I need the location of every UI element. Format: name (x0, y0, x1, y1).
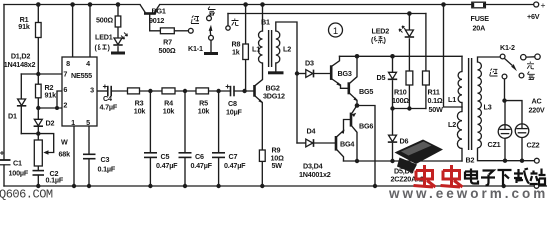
wire: BG6 collector drop (352, 126, 357, 161)
svg-text:1k: 1k (232, 48, 240, 57)
svg-text:+6V: +6V (527, 12, 540, 21)
svg-text:+: + (541, 0, 546, 10)
LED2 (green) (399, 26, 414, 37)
transistor BG6 (PNP) (351, 113, 356, 127)
resistor R3 (128, 88, 140, 94)
wire: K1-2 inverter contact down (504, 79, 506, 101)
node: D1/D2/pot (36, 131, 40, 135)
svg-text:NE555: NE555 (71, 71, 92, 80)
annotation circled 1 (329, 23, 343, 37)
node: y56 rail junctions (355, 54, 360, 59)
wire: C6 leads (184, 91, 186, 153)
svg-text:L2: L2 (448, 120, 456, 129)
node: bottom rail junctions (36, 184, 40, 188)
node: pin2/pin6/R2/D2 (36, 106, 40, 110)
node: return line junctions (355, 159, 359, 163)
wire: NE555 pin 4 supply (89, 5, 91, 58)
svg-text:B2: B2 (466, 156, 475, 165)
wire: R8 leads (245, 5, 247, 45)
svg-text:L1: L1 (252, 45, 260, 54)
LED1 (red) (113, 33, 127, 46)
svg-text:BG4: BG4 (340, 140, 354, 149)
svg-text:AC: AC (532, 97, 542, 106)
wire: R1 top lead (37, 5, 39, 23)
fuse FUSE 20A (472, 2, 486, 8)
wire: left border / C1 branch upper (3, 5, 5, 160)
wire: D2 leads (37, 108, 39, 119)
svg-text:0.1Ω: 0.1Ω (428, 96, 443, 105)
svg-text:3: 3 (90, 86, 94, 95)
wire: pot W top lead (37, 134, 39, 140)
wire: top +6V rail right segment (160, 4, 534, 6)
label (green) for LED2 (374, 36, 383, 43)
wire: return line y161 to B2 (344, 160, 463, 162)
svg-text:10k: 10k (134, 107, 146, 116)
svg-text:100Ω: 100Ω (392, 96, 409, 105)
wire: socket feed line (505, 101, 523, 124)
node: socket feed (502, 98, 506, 102)
wire: BG5 emitter to output node (350, 94, 357, 106)
wire: B1 L1 top lead (262, 5, 264, 32)
switch K1-2 contact NI (inverter) (502, 74, 507, 79)
svg-text:C1: C1 (13, 159, 22, 168)
diode D2 (34, 119, 43, 126)
svg-text:L3: L3 (484, 103, 492, 112)
wire: secondary + rail y13.5 (228, 13, 426, 15)
wire: D1 anode lead (20, 74, 22, 99)
wire: BG2 emitter to R9 (255, 96, 262, 150)
svg-text:68k: 68k (59, 150, 71, 159)
svg-text:5: 5 (86, 118, 90, 127)
wire: B1 L1 bottom to BG2 collector (255, 63, 262, 85)
wire: D4 to BG4 base (314, 142, 335, 144)
terminal +6V (534, 2, 539, 7)
wire: LED2 top lead (408, 14, 410, 31)
wire: BG3 emitter to BG5 base (332, 79, 348, 88)
svg-text:220V: 220V (529, 106, 545, 115)
wire: BG1 base lead (150, 14, 161, 31)
wire: feedback node to D3 (297, 73, 306, 75)
diode D3 (306, 70, 314, 78)
transistor BG2 (3DG12) (255, 85, 263, 103)
label CHONG (charge) at K1-2 (527, 62, 534, 69)
svg-text:1N4148x2: 1N4148x2 (4, 60, 36, 69)
wire: +6V to B2 centre tap (444, 5, 463, 108)
wire: left border / C1 branch lower (3, 165, 5, 186)
wire: R5 to C8 (209, 90, 231, 92)
diode D5 (388, 72, 397, 79)
svg-text:0.47µF: 0.47µF (156, 161, 178, 170)
label TING (stop) at K1-1 (208, 7, 216, 16)
svg-text:0.1µF: 0.1µF (46, 176, 64, 185)
wire: R2 leads (37, 74, 39, 84)
wire: collector rail y56 (340, 55, 463, 57)
resistor R11 (423, 71, 430, 85)
terminal bottom right (534, 184, 539, 189)
ground: B1 L2 (268, 71, 284, 74)
svg-text:BG1: BG1 (152, 7, 166, 16)
transformer B1 winding L2 (276, 31, 280, 63)
wire: node D1/D2 to pot (21, 133, 38, 135)
transistor BG1 (9012) (140, 5, 160, 15)
socket CZ2 (515, 124, 529, 138)
transistor BG5 (349, 82, 358, 101)
resistor R1 (36, 23, 42, 38)
wire: BG4 collector drop (337, 150, 343, 161)
wire: pin 3 to C4 (97, 90, 108, 92)
wire: pin 2 line (38, 107, 62, 109)
svg-text:10k: 10k (198, 107, 210, 116)
watermark text char XIA (down) (498, 170, 512, 186)
svg-text:L2: L2 (283, 45, 291, 54)
wire: 500ohm resistor to LED1 (117, 27, 119, 38)
node: rail junctions top (36, 2, 41, 7)
potentiometer W (34, 140, 48, 166)
svg-text:K1-2: K1-2 (500, 43, 515, 52)
wire: BG4 emitter diagonal (337, 131, 343, 137)
capacitor C6 (179, 153, 192, 158)
watermark red bug character 1 (414, 165, 436, 187)
wire: LED2 to R10 (408, 39, 410, 71)
wire: pin 7 line (21, 73, 62, 75)
svg-text:4: 4 (86, 59, 90, 68)
svg-text:C7: C7 (229, 152, 238, 161)
wire: D5 bottom lead (392, 81, 394, 109)
resistor R4 (162, 88, 175, 94)
socket CZ1 (498, 125, 512, 139)
wire: C4 to R3 (111, 90, 127, 92)
wire: D3 to BG3 base (314, 73, 330, 75)
svg-text:D6: D6 (400, 137, 409, 146)
wire: top +6V rail left segment (4, 4, 140, 6)
transistor BG4 (336, 129, 344, 150)
wire: NE555 pin 8 supply (72, 5, 74, 58)
svg-text:0.1µF: 0.1µF (98, 165, 116, 174)
wire: R11 bottom lead (425, 85, 427, 109)
svg-text:www.eeworm.com: www.eeworm.com (388, 186, 547, 200)
wire: B2 L3 bottom to socket line (478, 149, 535, 161)
switch K1-1 contact NI (reverse) (188, 28, 193, 33)
wire: C2 bottom lead (37, 175, 39, 186)
label TING (stop) at K1-2 (528, 72, 535, 80)
capacitor C8 (electrolytic) (226, 85, 234, 97)
wire: sense line y108.5 (393, 108, 426, 110)
svg-text:4.7µF: 4.7µF (100, 103, 118, 112)
transformer B1 winding L1 (259, 31, 263, 63)
wire: LED1 cathode to ground (117, 47, 119, 52)
label (red) for LED1 (98, 44, 107, 50)
capacitor C7 (212, 153, 225, 158)
wire: B2 winding join at centre tap (461, 103, 463, 112)
wire: pin 6 stub to pin2 line (57, 91, 62, 108)
svg-text:D4: D4 (307, 127, 316, 136)
wire: B2 L3 top to K1-2 (478, 57, 501, 62)
node: LED2 on y13.5 rail (407, 11, 412, 16)
wire: R9 bottom lead (261, 161, 263, 186)
ground: K1-1 common (204, 52, 218, 55)
svg-text:500Ω: 500Ω (96, 16, 113, 25)
svg-text:BG6: BG6 (359, 122, 373, 131)
diode D1 (17, 99, 26, 106)
wire: B2 L2 bottom to return line (461, 149, 463, 162)
resistor R2 (36, 84, 42, 98)
svg-text:7: 7 (63, 70, 67, 79)
switch K1-1 contact CHONG (charge) (226, 26, 230, 30)
wire: B1 L2 bottom to ground (275, 63, 277, 71)
svg-text:8: 8 (66, 59, 70, 68)
svg-text:Q606.COM: Q606.COM (0, 188, 53, 201)
wire: LED1 branch from rail (117, 5, 119, 17)
wire: C5 leads (149, 91, 151, 153)
wire: C3 bottom lead (88, 159, 90, 186)
svg-text:10µF: 10µF (226, 108, 243, 117)
resistor R5 (196, 88, 209, 94)
watermark red bug character 2 (441, 165, 463, 187)
diode D4 (306, 139, 314, 147)
wire: NE555 pin 1 to ground (73, 126, 75, 186)
wire: K1-1 charge contact to 13.5 rail (227, 14, 229, 26)
IC U1 NE555 body (62, 57, 97, 126)
diode D6 (388, 135, 397, 142)
switch K1-2 charge contact pair with jumper (521, 54, 541, 60)
transformer B1 core (269, 30, 272, 67)
wire: R11 top lead from y13.5 rail (425, 14, 427, 72)
switch K1-2 common pole (500, 54, 505, 59)
transformer B2 winding L2 (457, 112, 462, 149)
wire: R7 to K1-1 contact (174, 30, 188, 32)
terminal AC output (534, 158, 539, 163)
transformer B2 winding L1 (458, 72, 462, 103)
resistor R8 (243, 44, 249, 60)
switch K1-1 contact TING (stop) (207, 16, 212, 21)
svg-text:D5: D5 (377, 73, 386, 82)
svg-text:W: W (61, 138, 68, 147)
svg-text:2: 2 (63, 101, 67, 110)
svg-text:D1: D1 (8, 112, 17, 121)
capacitor C4 (electrolytic) (103, 85, 111, 97)
node: sense line junctions (390, 106, 394, 110)
transformer B2 winding L3 (478, 62, 482, 148)
node: RC chain junctions (148, 89, 152, 93)
svg-text:10k: 10k (163, 107, 175, 116)
svg-text:C3: C3 (101, 155, 110, 164)
watermark text char DIAN (electric) (465, 169, 478, 184)
svg-text:1N4001x2: 1N4001x2 (299, 170, 331, 179)
svg-text:BG5: BG5 (359, 87, 373, 96)
svg-text:BG3: BG3 (338, 69, 352, 78)
wire: CZ2 bottom lead (521, 138, 523, 161)
node: socket bottoms (503, 159, 507, 163)
capacitor C5 (144, 153, 157, 158)
wire: R3 to R4 (140, 90, 163, 92)
watermark text char ZHAN (station) (530, 169, 546, 185)
resistor R7 (160, 28, 174, 34)
resistor 500ohm (LED1 series) (115, 16, 121, 27)
wire: D5 top lead (392, 56, 394, 72)
wire: D1 cathode lead (20, 107, 22, 134)
wire: BG6 emitter from output node (352, 106, 356, 113)
label NI (inverter) at K1-2 (490, 69, 498, 77)
svg-text:5W: 5W (272, 161, 283, 170)
switch K1-1 common pole with wiper arrow (209, 25, 214, 40)
svg-text:FUSE: FUSE (471, 14, 490, 23)
svg-text:6: 6 (63, 85, 67, 94)
wire: D6 top lead (392, 109, 394, 136)
wire: CZ1 bottom lead (504, 138, 506, 160)
wire: B1 L2 top feedback loop (276, 22, 297, 143)
svg-text:D2: D2 (46, 119, 55, 128)
wire: feedback node to D4 (297, 142, 306, 144)
node: B1 feedback (295, 71, 299, 75)
svg-text:20A: 20A (473, 24, 486, 33)
svg-text:L1: L1 (448, 95, 456, 104)
svg-text:91k: 91k (18, 22, 30, 31)
svg-text:LED2: LED2 (372, 27, 390, 36)
svg-text:91k: 91k (45, 91, 57, 100)
resistor R9 (259, 150, 265, 161)
svg-text:1: 1 (333, 26, 338, 37)
svg-text:0.47µF: 0.47µF (191, 161, 213, 170)
svg-text:D3: D3 (305, 59, 314, 68)
label CHONG (charge) at K1-1 (232, 19, 239, 26)
svg-text:100µF: 100µF (9, 169, 29, 178)
svg-text:3DG12: 3DG12 (263, 92, 285, 101)
transistor BG3 (331, 65, 340, 86)
svg-text:500Ω: 500Ω (159, 46, 176, 55)
svg-text:CZ1: CZ1 (488, 140, 501, 149)
wire: bottom ground rail (4, 185, 534, 187)
watermark text char ZAI (load) (514, 169, 529, 184)
wire: BG3 collector riser (332, 56, 340, 66)
svg-text:LED1: LED1 (95, 33, 113, 42)
capacitor C3 (83, 154, 96, 158)
svg-text:50W: 50W (429, 105, 444, 114)
svg-text:K1-1: K1-1 (188, 44, 203, 53)
transformer B2 core (469, 58, 472, 150)
wire: D6 bottom lead (392, 144, 394, 161)
wire: BG6 base loop to BG4 emitter (344, 120, 350, 131)
wire: pot W wiper loop (38, 134, 53, 153)
label NI (reverse) at K1-1 R7 contact (191, 16, 199, 24)
switch K1-2 wiper arrow (504, 58, 517, 71)
wire: R1 bottom to pin7 node (37, 38, 39, 75)
wire: R10 bottom lead (408, 85, 410, 109)
svg-text:C6: C6 (195, 152, 204, 161)
wire: BG5 collector riser (350, 56, 357, 83)
wire: C7 leads (218, 91, 220, 153)
svg-text:CZ2: CZ2 (527, 141, 540, 150)
wire: output node to ground drop (357, 106, 375, 187)
wire: CZ1 top lead (504, 101, 506, 125)
switch K1-2 contact TING (stop) (519, 73, 524, 78)
wire: R4 to R5 (175, 90, 196, 92)
wire: C8 to BG2 base (234, 90, 253, 92)
wire: pot W bottom to C2 (37, 166, 39, 170)
wire: B2 L1 top to y56 rail (461, 56, 463, 71)
capacitor C1 (electrolytic, in left border) (0, 151, 11, 165)
CJK glyphs drawn as strokes (98, 7, 535, 80)
node: push-pull output (355, 103, 360, 108)
watermark text char ZI (child) (481, 171, 495, 186)
node: bottom rail under watermark (502, 184, 506, 188)
resistor R10 (406, 71, 413, 85)
svg-text:9012: 9012 (149, 16, 164, 25)
capacitor C2 (33, 171, 45, 175)
svg-text:C5: C5 (161, 152, 170, 161)
wire: bottom rail stub right of terminal (539, 185, 547, 187)
svg-text:0.47µF: 0.47µF (224, 161, 246, 170)
node: pin7/R1/R2 (36, 72, 40, 76)
svg-text:1: 1 (71, 118, 75, 127)
svg-text:B1: B1 (261, 18, 270, 27)
wire: NE555 pin 5 to C3 (88, 126, 90, 154)
ground: LED1 cathode (111, 52, 125, 55)
wire: K1-1 common to ground (210, 40, 212, 52)
watermark graduation cap logo (395, 140, 444, 165)
